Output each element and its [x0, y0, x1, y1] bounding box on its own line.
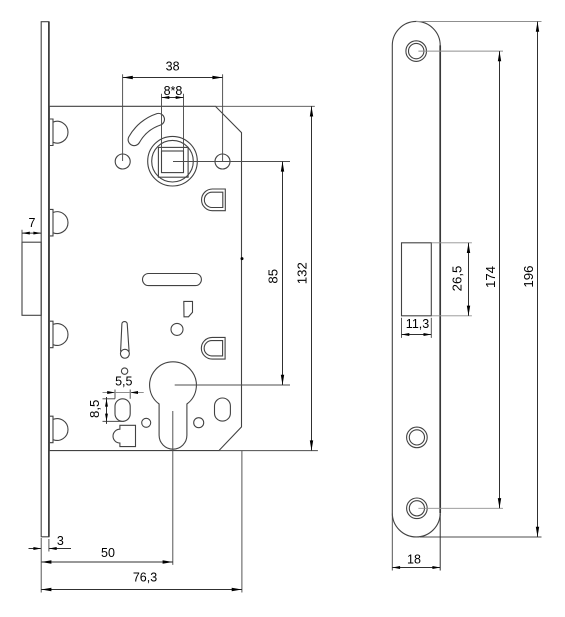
follower outer square	[158, 147, 188, 177]
euro cylinder hole	[150, 362, 197, 449]
faceplate (side view strip)	[41, 22, 49, 537]
vertical oval right	[215, 398, 231, 421]
dim 26,5	[432, 243, 472, 316]
D-shaped hole lower (inner)	[204, 341, 222, 356]
kidney-shaped curved slot	[128, 113, 164, 145]
latch bump 1	[50, 119, 68, 146]
small circle above 5,5	[121, 368, 127, 374]
deadbolt rectangle (extended bolt)	[22, 242, 41, 315]
small oval (5.5 x 8.5 slot)	[115, 399, 130, 422]
svg-text:11,3: 11,3	[406, 317, 429, 331]
dim 50	[41, 411, 173, 565]
svg-text:174: 174	[483, 266, 498, 288]
svg-text:8,5: 8,5	[87, 400, 102, 418]
dim 196	[416, 22, 541, 538]
svg-text:5,5: 5,5	[115, 374, 132, 388]
dim 7	[22, 216, 41, 242]
right mounting hole	[215, 154, 230, 169]
dim 11,3	[402, 317, 432, 338]
svg-text:132: 132	[295, 262, 310, 284]
bolt front shape with left bump	[113, 425, 135, 446]
svg-text:3: 3	[57, 534, 64, 548]
faceplate plan (stadium outline)	[392, 21, 440, 537]
svg-text:8*8: 8*8	[164, 84, 183, 98]
svg-text:196: 196	[521, 266, 536, 288]
dim 76,3	[41, 451, 242, 593]
small pentagon cutout	[184, 301, 193, 316]
svg-text:76,3: 76,3	[133, 571, 157, 585]
dim 132	[215, 106, 318, 450]
svg-text:18: 18	[407, 552, 421, 566]
top screw hole	[406, 41, 427, 62]
svg-text:38: 38	[166, 60, 180, 74]
dim 3	[29, 534, 72, 551]
small circle below pentagon	[171, 323, 183, 335]
lock case outline	[49, 106, 241, 450]
dim 85	[173, 161, 290, 385]
D-shaped hole upper (inner)	[204, 192, 222, 207]
dim 18	[392, 514, 440, 571]
bottom screw hole	[407, 498, 428, 519]
spindle follower outer circle	[148, 136, 198, 186]
dim 5,5	[103, 374, 144, 398]
middle screw hole	[407, 427, 428, 448]
dim 38	[123, 60, 223, 162]
latch bump 4	[50, 416, 68, 443]
latch bump 2	[50, 209, 68, 236]
svg-text:26,5: 26,5	[450, 266, 465, 292]
svg-text:50: 50	[101, 546, 115, 560]
small circle right of cylinder	[194, 418, 204, 428]
dim 174	[418, 51, 503, 508]
follower 8x8 square	[162, 151, 184, 173]
dim 8*8	[162, 84, 184, 151]
spindle follower inner circle	[152, 140, 194, 182]
tapered spring pin	[120, 322, 129, 359]
D-shaped hole upper (outer)	[202, 189, 226, 211]
horizontal slot (capsule)	[143, 274, 202, 286]
small circle left of cylinder	[142, 418, 151, 427]
left mounting hole	[115, 154, 130, 169]
svg-text:7: 7	[29, 216, 36, 230]
latch cutout rectangle	[402, 243, 432, 316]
svg-text:85: 85	[266, 269, 281, 284]
D-shaped hole lower (outer)	[201, 337, 225, 359]
latch bump 3	[50, 321, 68, 348]
dim 8,5	[87, 397, 124, 424]
midpoint dot on case right edge	[241, 257, 244, 260]
